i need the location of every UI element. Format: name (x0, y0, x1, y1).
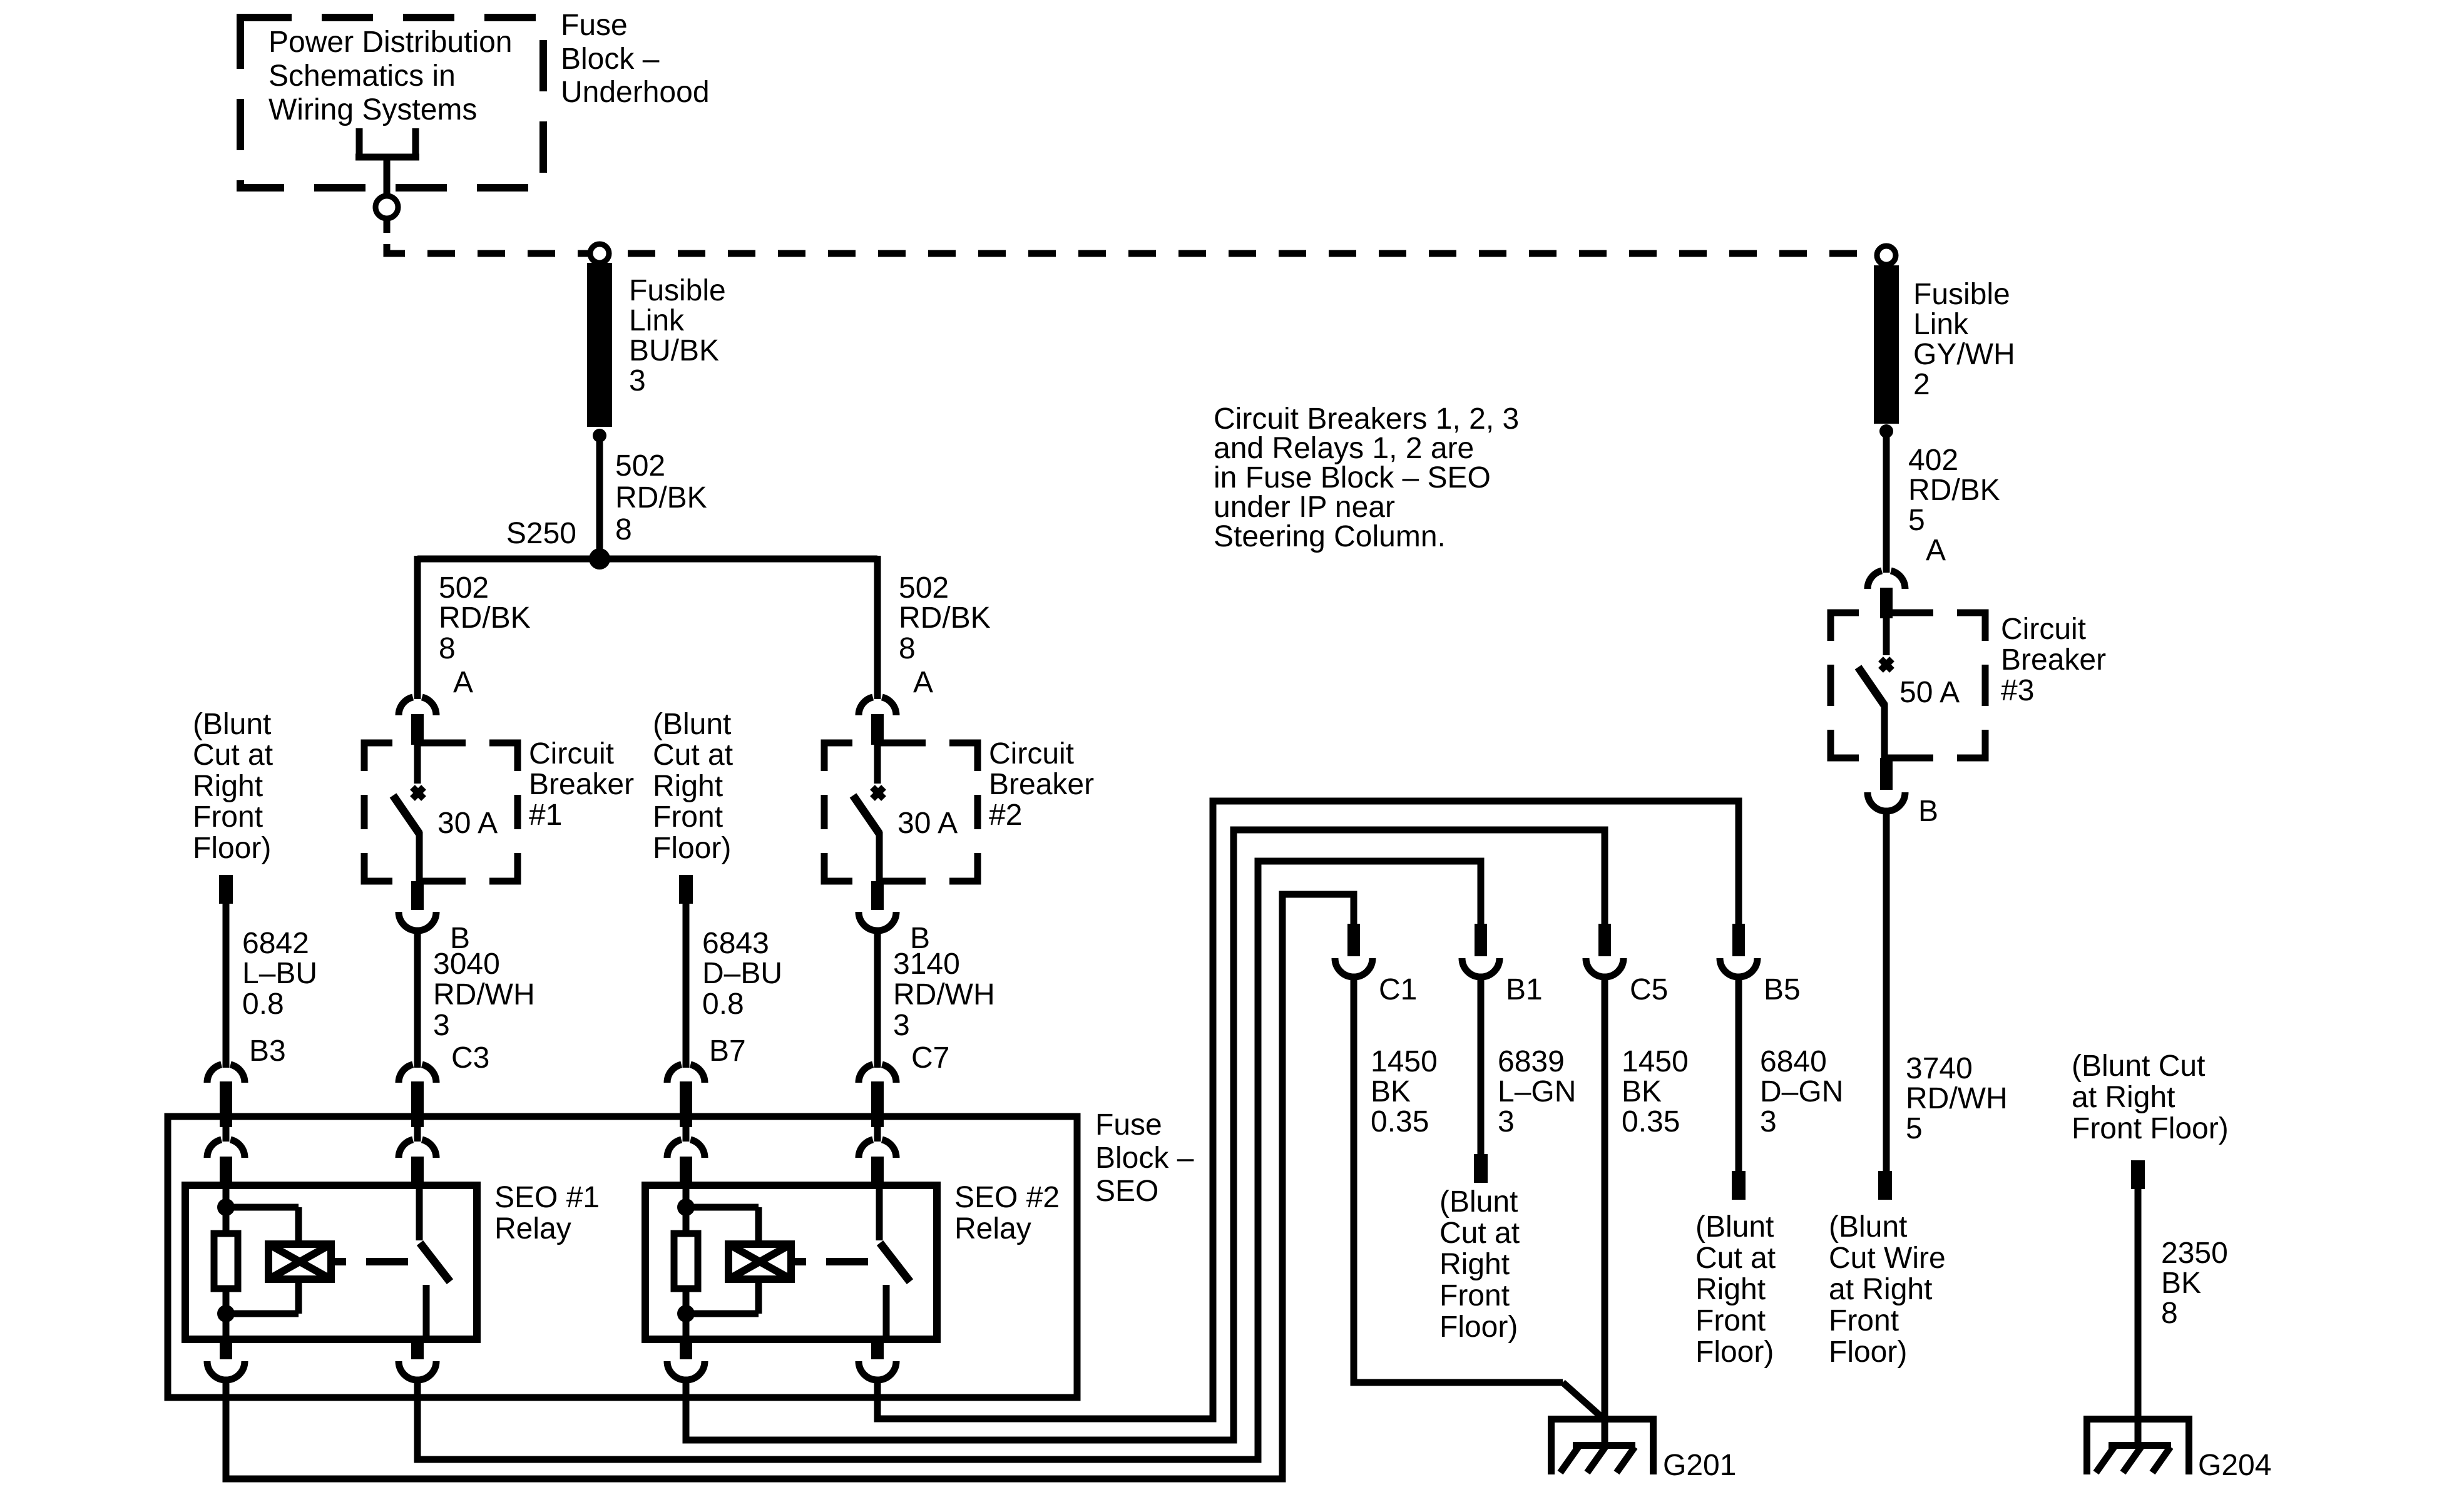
wire 6839 from B1 to blunt cut (1478, 977, 1485, 1156)
svg-text:at Right: at Right (2072, 1081, 2175, 1114)
circuit breaker #3 dashed box (1831, 613, 1985, 758)
svg-text:Breaker: Breaker (529, 768, 634, 801)
label: G204 (2198, 1449, 2271, 1482)
wire from B7 relay output to connector C5 (686, 830, 1605, 1440)
svg-text:Link: Link (1913, 308, 1969, 341)
svg-text:3140: 3140 (893, 948, 960, 981)
svg-text:Power Distribution: Power Distribution (268, 26, 512, 59)
ground G201 (1548, 1416, 1657, 1474)
label: wire 1450 BK 0.35 (C1) (1371, 1045, 1438, 1138)
svg-text:Cut at: Cut at (193, 738, 273, 772)
label: pin B1 (1506, 973, 1543, 1006)
wire 3140 RD/WH from CB2 to fuse block (874, 928, 881, 1068)
svg-text:#1: #1 (529, 799, 562, 832)
circuit breaker #1 dashed box (364, 743, 518, 881)
connector pin B of circuit breaker #1 (399, 881, 436, 931)
relay 1 coil to switch dashed link (331, 1258, 408, 1265)
svg-text:SEO #1: SEO #1 (494, 1181, 600, 1214)
label: SEO #1 Relay (494, 1181, 600, 1245)
label: pin C5 (1630, 973, 1668, 1006)
fuse block internal connector at C7 (top) (859, 1113, 896, 1187)
svg-text:0.35: 0.35 (1371, 1105, 1429, 1138)
label: Circuit Breaker #3 (2001, 613, 2106, 707)
blunt cut wire 3740 end (1878, 1171, 1892, 1200)
svg-text:3: 3 (1498, 1105, 1515, 1138)
label: (Blunt Cut at Right Front Floor) for wire 6839 (1439, 1185, 1520, 1344)
svg-text:Floor): Floor) (1695, 1336, 1774, 1369)
relay 2 coil (728, 1244, 791, 1279)
svg-text:L–GN: L–GN (1498, 1075, 1576, 1108)
label: splice S250 (506, 517, 576, 550)
svg-text:C5: C5 (1630, 973, 1668, 1006)
svg-text:3: 3 (629, 364, 646, 397)
svg-text:6842: 6842 (242, 927, 309, 960)
svg-text:Cut Wire: Cut Wire (1829, 1242, 1946, 1275)
label: (Blunt Cut at Right Front Floor) for wire 6842 (193, 708, 273, 865)
svg-text:8: 8 (439, 632, 456, 665)
label: Circuit Breaker #1 (529, 737, 634, 832)
wire 502 RD/BK from fusible link to S250 (596, 436, 603, 559)
svg-text:Schematics in: Schematics in (268, 59, 456, 93)
svg-text:Circuit: Circuit (529, 737, 614, 770)
svg-text:Front: Front (1695, 1304, 1766, 1337)
relay 2 resistor (674, 1234, 698, 1289)
svg-text:C1: C1 (1379, 973, 1417, 1006)
svg-text:RD/WH: RD/WH (1906, 1082, 2008, 1115)
svg-text:(Blunt: (Blunt (653, 708, 731, 741)
label: wire 1450 BK 0.35 (C5) (1622, 1045, 1689, 1138)
svg-text:30 A: 30 A (897, 807, 958, 840)
svg-text:Steering Column.: Steering Column. (1214, 520, 1446, 553)
label: wire 3140 RD/WH 3 (893, 948, 995, 1075)
label: (Blunt Cut at Right Front Floor) for wire 2350 (2072, 1050, 2229, 1145)
label: wire 3040 RD/WH 3 (433, 948, 535, 1075)
svg-text:Fuse: Fuse (561, 9, 628, 42)
svg-text:Cut at: Cut at (653, 738, 733, 772)
svg-text:0.8: 0.8 (242, 988, 284, 1021)
svg-text:C7: C7 (911, 1041, 949, 1075)
label: wire 502 RD/BK 8 A (CB2) (899, 571, 991, 699)
svg-text:BK: BK (2161, 1267, 2201, 1300)
wire 502 RD/BK 8 to circuit breaker #2 (874, 556, 881, 699)
svg-text:SEO #2: SEO #2 (954, 1181, 1060, 1214)
svg-text:D–GN: D–GN (1760, 1075, 1843, 1108)
svg-text:Cut at: Cut at (1439, 1217, 1520, 1250)
label: 50 A (CB3) (1899, 676, 1960, 709)
label: pin B5 (1764, 973, 1801, 1006)
svg-text:0.35: 0.35 (1622, 1105, 1680, 1138)
svg-text:402: 402 (1908, 444, 1958, 477)
svg-text:Block –: Block – (1095, 1142, 1194, 1175)
wire 502 RD/BK 8 to circuit breaker #1 (414, 556, 421, 699)
connector pin C5 (1586, 924, 1623, 977)
note: Circuit Breakers 1,2,3 and Relays 1,2 location (1214, 402, 1519, 553)
svg-text:5: 5 (1908, 504, 1925, 537)
relay 1 coil branch wires (217, 1187, 299, 1339)
power source fork symbol inside fuse block underhood (355, 128, 419, 233)
connector pin A of circuit breaker #3 (1868, 571, 1905, 618)
label: 30 A (CB1) (437, 807, 498, 840)
svg-text:1450: 1450 (1371, 1045, 1438, 1078)
fuse block underhood (power distribution source) dashed box (240, 18, 543, 188)
svg-text:3740: 3740 (1906, 1052, 1973, 1085)
svg-text:under IP near: under IP near (1214, 491, 1395, 524)
blunt cut wire 6840 end (1732, 1171, 1746, 1200)
svg-text:RD/BK: RD/BK (899, 601, 991, 635)
wire from S250 to circuit breaker branches (417, 556, 877, 563)
fuse block internal connector at B7 (top) (667, 1113, 705, 1187)
svg-text:at Right: at Right (1829, 1273, 1932, 1306)
svg-text:3: 3 (1760, 1105, 1777, 1138)
relay 1 switch (419, 1189, 450, 1339)
svg-text:S250: S250 (506, 517, 576, 550)
svg-text:Circuit: Circuit (989, 737, 1074, 770)
dashed power feed wire from fuse block underhood (387, 244, 1875, 253)
relay 1 coil (268, 1244, 331, 1279)
wire 1450 BK from C1 to ground G201 (1354, 977, 1603, 1418)
svg-text:Right: Right (193, 770, 263, 803)
svg-text:2: 2 (1913, 368, 1930, 401)
fuse block bottom connector at x=1402 (859, 1339, 896, 1380)
wire 1450 BK from C5 to ground G201 (1602, 977, 1608, 1446)
connector pin B5 (1720, 924, 1757, 977)
svg-text:Front: Front (1829, 1304, 1899, 1337)
blunt cut wire 2350 end (2131, 1160, 2145, 1189)
svg-text:BK: BK (1622, 1075, 1662, 1108)
svg-text:Breaker: Breaker (2001, 643, 2106, 677)
label: pin B (CB2) (910, 922, 930, 955)
junction dot below fusible link 2 (1879, 424, 1893, 438)
fusible link GY/WH terminal ring (1877, 246, 1896, 265)
svg-text:(Blunt: (Blunt (1829, 1210, 1907, 1244)
svg-text:L–BU: L–BU (242, 957, 317, 990)
label: 30 A (CB2) (897, 807, 958, 840)
circuit breaker #2 contact and blade (853, 745, 884, 884)
SEO #2 relay box (645, 1185, 937, 1339)
fusible link BU/BK terminal ring (590, 244, 609, 263)
connector pin C7 dome (859, 1065, 896, 1116)
svg-text:Fusible: Fusible (629, 274, 726, 307)
svg-text:(Blunt: (Blunt (1695, 1210, 1774, 1244)
svg-text:B3: B3 (249, 1035, 286, 1068)
svg-text:B5: B5 (1764, 973, 1801, 1006)
label: wire 3740 RD/WH 5 (1906, 1052, 2008, 1145)
svg-text:SEO: SEO (1095, 1175, 1158, 1208)
connector pin A of circuit breaker #1 (399, 697, 436, 745)
svg-text:Relay: Relay (494, 1212, 571, 1245)
label: pin B (CB3) (1918, 795, 1938, 828)
blunt cut wire 6842 end (219, 875, 233, 904)
svg-text:Floor): Floor) (1829, 1336, 1907, 1369)
connector pin C3 dome (399, 1065, 436, 1116)
svg-text:Link: Link (629, 304, 685, 337)
svg-text:Wiring Systems: Wiring Systems (268, 93, 477, 126)
label: Circuit Breaker #2 (989, 737, 1094, 832)
svg-text:Circuit: Circuit (2001, 613, 2086, 646)
label: (Blunt Cut at Right Front Floor) for wire 6843 (653, 708, 733, 865)
svg-text:8: 8 (2161, 1297, 2178, 1330)
svg-text:GY/WH: GY/WH (1913, 338, 2015, 371)
label: G201 (1663, 1449, 1736, 1482)
svg-text:3040: 3040 (433, 948, 500, 981)
svg-text:502: 502 (899, 571, 949, 605)
label: Fuse Block - Underhood (561, 9, 710, 109)
wire 6840 from B5 to blunt cut (1736, 977, 1742, 1173)
wire 6843 D-BU to fuse block (683, 901, 690, 1068)
label: wire 502 RD/BK 8 A (CB1) (439, 571, 531, 699)
svg-text:BU/BK: BU/BK (629, 334, 719, 367)
circuit breaker #2 dashed box (824, 743, 978, 881)
svg-text:Front: Front (193, 800, 263, 834)
label: (Blunt Cut at Right Front Floor) for wire 6840 (1695, 1210, 1776, 1369)
svg-text:3: 3 (893, 1009, 910, 1042)
fuse block bottom connector at x=1096 (667, 1339, 705, 1380)
svg-text:Front Floor): Front Floor) (2072, 1112, 2229, 1145)
fuse block bottom connector at x=667 (399, 1339, 436, 1380)
svg-text:A: A (913, 666, 933, 699)
wire 3040 RD/WH from CB1 to fuse block (414, 928, 421, 1068)
blunt cut wire 6843 end (679, 875, 693, 904)
svg-text:30 A: 30 A (437, 807, 498, 840)
label: (Blunt Cut Wire at Right Front Floor) for wire 3740 (1829, 1210, 1946, 1369)
svg-text:6839: 6839 (1498, 1045, 1565, 1078)
label: pin B (CB1) (450, 922, 470, 955)
relay 2 coil to switch dashed link (791, 1258, 868, 1265)
svg-text:Right: Right (1695, 1273, 1766, 1306)
svg-text:BK: BK (1371, 1075, 1411, 1108)
wire 6842 L-BU to fuse block (223, 901, 230, 1068)
connector pin B7 dome (667, 1065, 705, 1116)
label: wire 6840 D-GN 3 (B5) (1760, 1045, 1843, 1138)
blunt cut wire 6839 end (1474, 1154, 1488, 1183)
label: wire 502 RD/BK 8 (615, 449, 707, 546)
svg-text:RD/BK: RD/BK (1908, 474, 2000, 507)
fuse block bottom connector at x=361 (207, 1339, 245, 1380)
wire 3740 RD/WH from CB3 to blunt cut (1883, 808, 1890, 1173)
wire from C7 relay output to connector B5 (877, 801, 1739, 1419)
svg-text:B1: B1 (1506, 973, 1543, 1006)
svg-text:50 A: 50 A (1899, 676, 1960, 709)
svg-text:C3: C3 (451, 1041, 489, 1075)
svg-text:#3: #3 (2001, 674, 2034, 707)
svg-text:RD/BK: RD/BK (439, 601, 531, 635)
wire from B3 relay output to connector C1 (226, 894, 1354, 1479)
svg-text:B: B (1918, 795, 1938, 828)
ground G204 (2083, 1416, 2192, 1474)
svg-text:and Relays 1, 2 are: and Relays 1, 2 are (1214, 432, 1474, 465)
connector pin A of circuit breaker #2 (859, 697, 896, 745)
wire from C3 relay output to connector B1 (417, 861, 1481, 1459)
circuit breaker #3 contact and blade (1858, 618, 1892, 761)
svg-text:2350: 2350 (2161, 1237, 2228, 1270)
svg-text:5: 5 (1906, 1112, 1923, 1145)
svg-text:6843: 6843 (702, 927, 769, 960)
svg-text:B7: B7 (709, 1035, 746, 1068)
svg-text:RD/WH: RD/WH (433, 978, 535, 1011)
svg-text:(Blunt: (Blunt (193, 708, 271, 741)
connector pin B of circuit breaker #2 (859, 881, 896, 931)
svg-text:0.8: 0.8 (702, 988, 744, 1021)
connector pin C1 (1335, 924, 1373, 977)
label: SEO #2 Relay (954, 1181, 1060, 1245)
svg-text:Block –: Block – (561, 43, 660, 76)
junction dot below fusible link (593, 429, 606, 442)
svg-text:G204: G204 (2198, 1449, 2271, 1482)
fuse block SEO box (168, 1116, 1077, 1397)
svg-text:Floor): Floor) (653, 832, 731, 865)
svg-text:1450: 1450 (1622, 1045, 1689, 1078)
svg-text:RD/WH: RD/WH (893, 978, 995, 1011)
svg-text:Fusible: Fusible (1913, 278, 2010, 311)
connector pin B1 (1462, 924, 1500, 977)
relay 2 coil branch wires (677, 1187, 759, 1339)
svg-text:Floor): Floor) (1439, 1311, 1518, 1344)
svg-text:Cut at: Cut at (1695, 1242, 1776, 1275)
label: pin C1 (1379, 973, 1417, 1006)
svg-text:Relay: Relay (954, 1212, 1031, 1245)
wire 402 RD/BK from fusible link 2 (1883, 431, 1890, 573)
svg-text:G201: G201 (1663, 1449, 1736, 1482)
svg-text:8: 8 (615, 513, 632, 546)
wire 2350 BK to ground G204 (2135, 1189, 2142, 1446)
label: wire 6843 D-BU 0.8 (702, 927, 782, 1068)
svg-text:A: A (453, 666, 473, 699)
fuse block internal connector at B3 (top) (207, 1113, 245, 1187)
label: Fusible Link GY/WH 2 (1913, 278, 2015, 401)
svg-text:8: 8 (899, 632, 916, 665)
label: Fuse Block - SEO (1095, 1108, 1194, 1208)
svg-text:RD/BK: RD/BK (615, 481, 707, 514)
svg-text:502: 502 (615, 449, 665, 483)
svg-text:Right: Right (1439, 1248, 1510, 1281)
svg-text:in Fuse Block – SEO: in Fuse Block – SEO (1214, 461, 1491, 494)
svg-text:Underhood: Underhood (561, 76, 710, 109)
label: wire 6842 L-BU 0.8 (242, 927, 317, 1068)
svg-text:Right: Right (653, 770, 723, 803)
svg-text:Circuit Breakers 1, 2, 3: Circuit Breakers 1, 2, 3 (1214, 402, 1519, 436)
SEO #1 relay box (185, 1185, 477, 1339)
fusible link BU/BK 3 (587, 263, 612, 427)
label: Power Distribution Schematics in Wiring Systems (268, 26, 512, 126)
relay 1 resistor (214, 1234, 238, 1289)
label: Fusible Link BU/BK 3 (629, 274, 726, 397)
svg-text:#2: #2 (989, 799, 1022, 832)
svg-text:A: A (1926, 534, 1946, 567)
svg-text:Breaker: Breaker (989, 768, 1094, 801)
fusible link GY/WH 2 (1874, 265, 1899, 424)
svg-text:(Blunt: (Blunt (1439, 1185, 1518, 1219)
label: wire 2350 BK 8 (2161, 1237, 2228, 1330)
fuse block internal connector at C3 (top) (399, 1113, 436, 1187)
connector pin B of circuit breaker #3 (1868, 758, 1905, 811)
label: wire 6839 L-GN 3 (B1) (1498, 1045, 1576, 1138)
circuit breaker #1 contact and blade (393, 745, 424, 884)
svg-text:Fuse: Fuse (1095, 1108, 1162, 1142)
svg-text:(Blunt Cut: (Blunt Cut (2072, 1050, 2205, 1083)
svg-text:Floor): Floor) (193, 832, 271, 865)
connector pin B3 dome (207, 1065, 245, 1116)
svg-text:D–BU: D–BU (702, 957, 782, 990)
svg-text:3: 3 (433, 1009, 450, 1042)
svg-text:Front: Front (653, 800, 723, 834)
svg-text:6840: 6840 (1760, 1045, 1827, 1078)
svg-text:502: 502 (439, 571, 489, 605)
relay 2 switch (879, 1189, 910, 1339)
svg-text:Front: Front (1439, 1279, 1510, 1312)
splice S250 junction dot (589, 548, 610, 570)
label: wire 402 RD/BK 5 A (1908, 444, 2000, 567)
